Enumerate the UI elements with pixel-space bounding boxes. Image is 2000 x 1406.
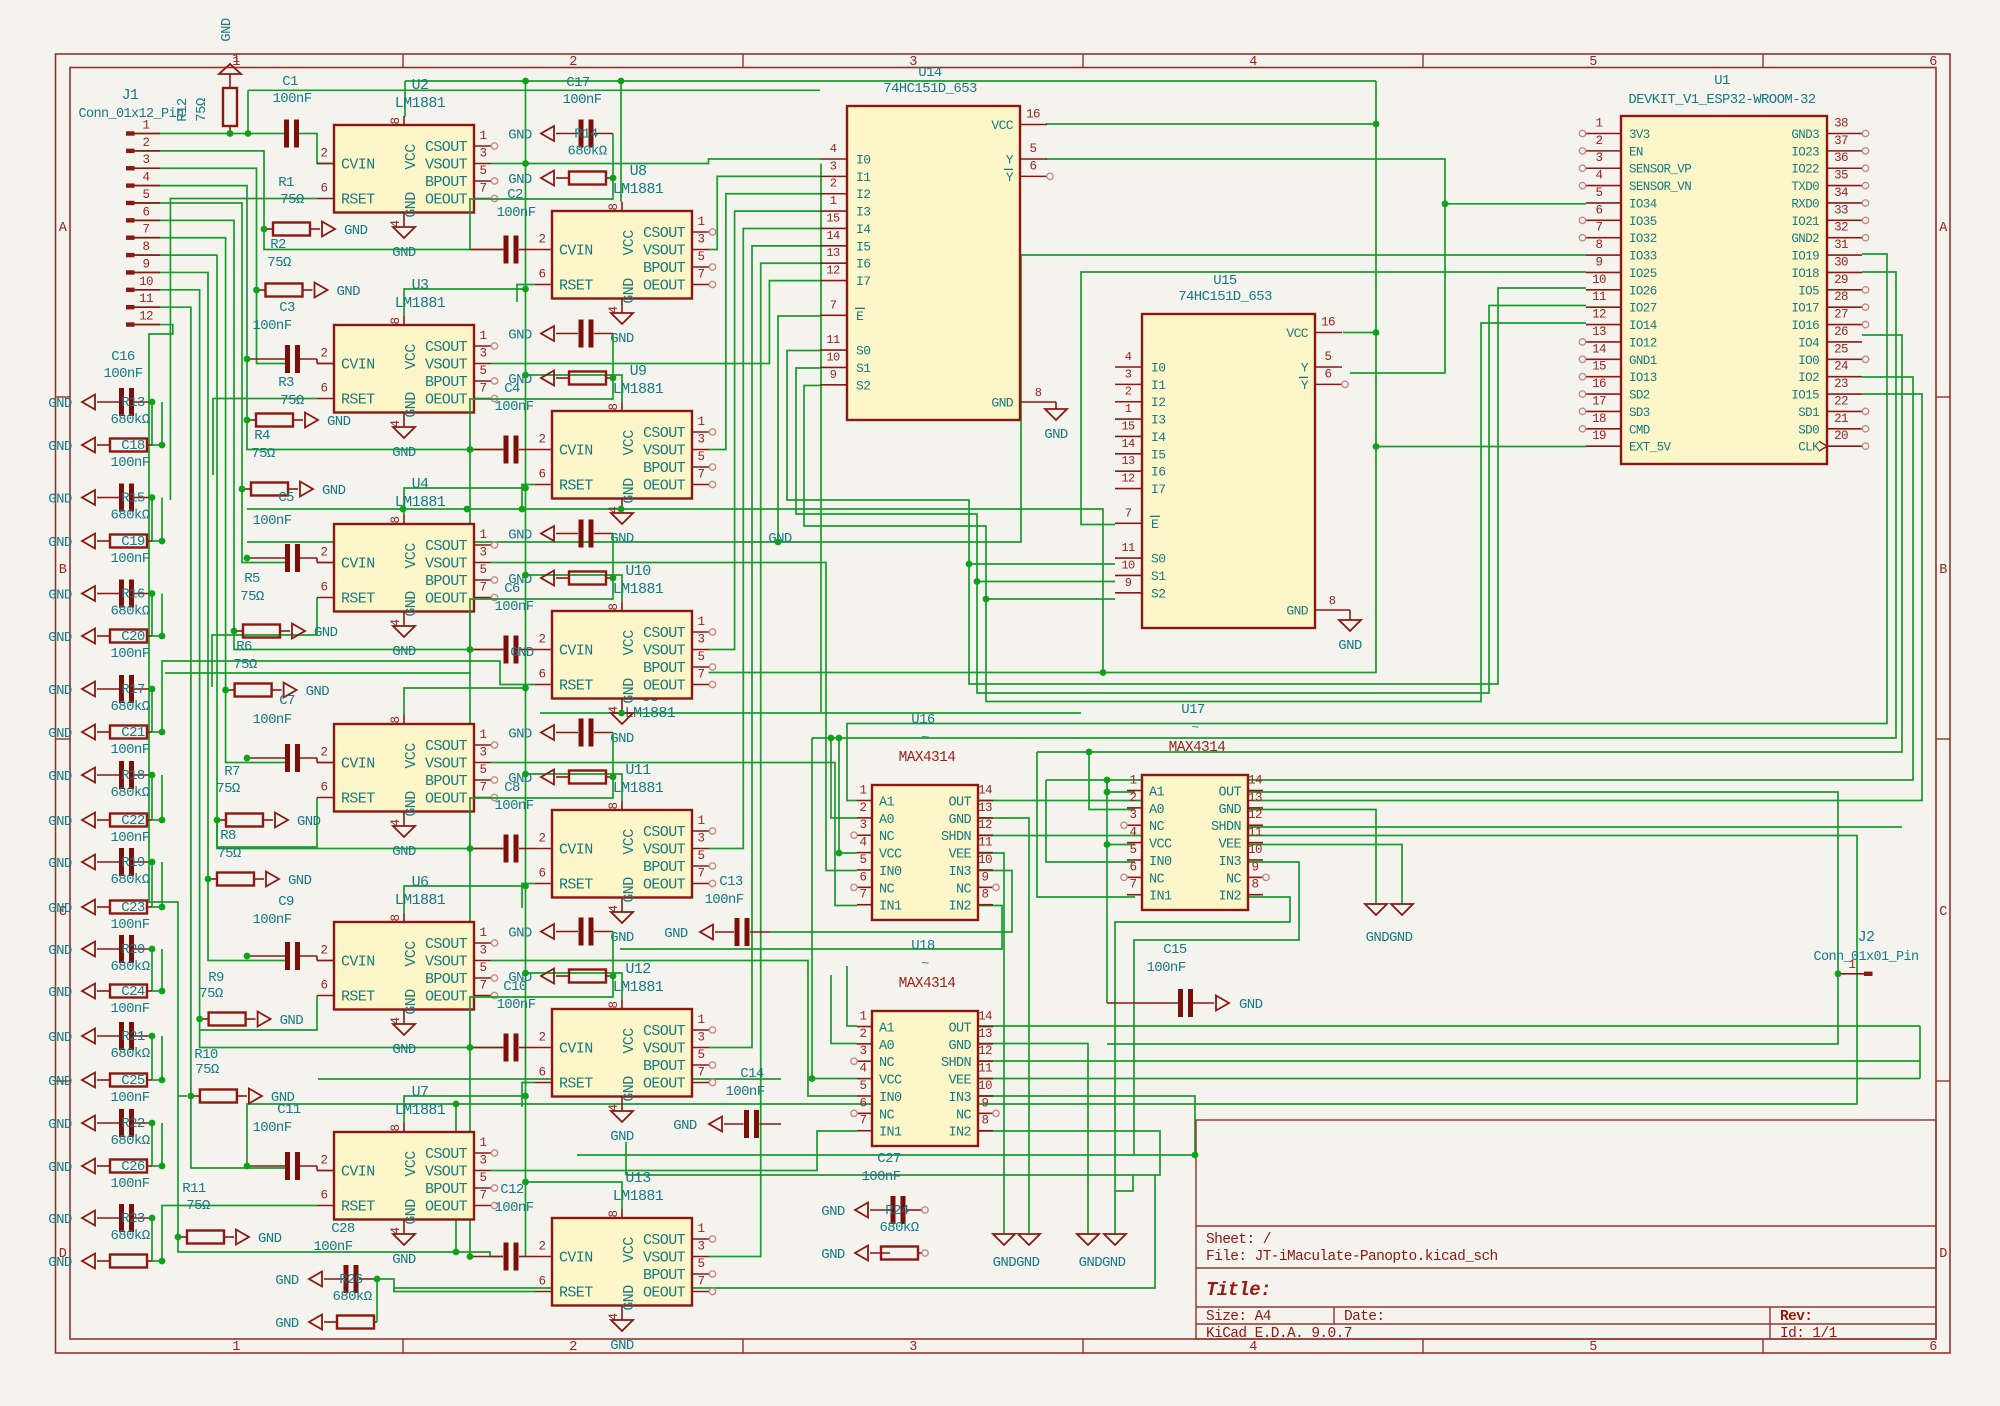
svg-text:9: 9: [982, 870, 989, 884]
svg-text:1: 1: [1596, 117, 1603, 131]
svg-text:I4: I4: [1151, 430, 1166, 445]
svg-text:MAX4314: MAX4314: [899, 976, 956, 992]
svg-text:C16: C16: [111, 349, 135, 365]
svg-text:GND: GND: [403, 192, 420, 218]
svg-text:C14: C14: [740, 1066, 764, 1082]
svg-text:IN2: IN2: [948, 1126, 971, 1141]
svg-text:100nF: 100nF: [110, 917, 149, 933]
svg-text:GND: GND: [48, 985, 72, 1001]
svg-text:8: 8: [389, 1124, 403, 1131]
svg-text:B: B: [1939, 563, 1947, 578]
svg-text:GND: GND: [510, 645, 534, 661]
svg-text:75Ω: 75Ω: [233, 657, 257, 673]
svg-text:E: E: [856, 309, 864, 324]
svg-text:GND: GND: [48, 1030, 72, 1046]
svg-text:IO12: IO12: [1629, 336, 1657, 350]
svg-text:22: 22: [1834, 394, 1848, 408]
svg-text:VCC: VCC: [403, 743, 420, 769]
svg-text:GND: GND: [48, 1255, 72, 1271]
svg-text:IO16: IO16: [1791, 319, 1819, 333]
svg-text:GND: GND: [821, 1204, 845, 1220]
svg-text:Y: Y: [1006, 153, 1014, 168]
svg-text:LM1881: LM1881: [613, 381, 664, 398]
svg-text:680kΩ: 680kΩ: [110, 1046, 149, 1062]
svg-text:1: 1: [480, 129, 487, 143]
svg-text:GND: GND: [327, 414, 351, 430]
svg-text:4: 4: [143, 171, 150, 185]
svg-text:8: 8: [607, 1001, 621, 1008]
svg-text:IN3: IN3: [948, 865, 971, 880]
svg-text:3: 3: [480, 746, 487, 760]
svg-text:12: 12: [978, 818, 992, 832]
svg-text:C: C: [1939, 905, 1947, 920]
svg-text:GND: GND: [337, 284, 361, 300]
svg-text:5: 5: [698, 650, 705, 664]
svg-text:GND: GND: [48, 1074, 72, 1090]
svg-text:BPOUT: BPOUT: [643, 859, 686, 876]
svg-text:R20: R20: [121, 942, 145, 958]
svg-text:IN2: IN2: [948, 900, 971, 915]
svg-text:R3: R3: [278, 375, 294, 391]
svg-text:CSOUT: CSOUT: [643, 625, 686, 642]
svg-text:CSOUT: CSOUT: [643, 1023, 686, 1040]
svg-text:S1: S1: [856, 361, 871, 376]
svg-text:LM1881: LM1881: [613, 181, 664, 198]
svg-text:R6: R6: [236, 639, 252, 655]
svg-text:2: 2: [539, 433, 546, 447]
svg-text:5: 5: [698, 450, 705, 464]
svg-text:3: 3: [480, 546, 487, 560]
svg-text:8: 8: [607, 802, 621, 809]
svg-text:CVIN: CVIN: [341, 954, 375, 971]
svg-text:100nF: 100nF: [110, 830, 149, 846]
svg-text:GND: GND: [1218, 803, 1241, 818]
svg-text:IO35: IO35: [1629, 215, 1657, 229]
svg-text:20: 20: [1834, 429, 1848, 443]
svg-text:8: 8: [607, 603, 621, 610]
svg-text:11: 11: [978, 1062, 992, 1076]
svg-text:OEOUT: OEOUT: [643, 1285, 686, 1302]
svg-text:GND: GND: [48, 1117, 72, 1133]
svg-text:2: 2: [321, 347, 328, 361]
svg-text:GND: GND: [219, 18, 235, 42]
svg-text:3: 3: [1125, 367, 1132, 381]
svg-text:5: 5: [1596, 186, 1603, 200]
svg-text:I5: I5: [856, 239, 870, 254]
svg-text:14: 14: [978, 1010, 992, 1024]
svg-text:B: B: [59, 563, 67, 578]
svg-text:35: 35: [1834, 169, 1848, 183]
svg-text:7: 7: [698, 1275, 705, 1289]
svg-text:CMD: CMD: [1629, 423, 1650, 437]
svg-text:IO23: IO23: [1791, 145, 1819, 159]
svg-text:3: 3: [1130, 808, 1137, 822]
svg-text:Y: Y: [1301, 361, 1309, 376]
svg-text:U9: U9: [630, 363, 647, 380]
svg-text:10: 10: [826, 350, 840, 364]
svg-text:7: 7: [698, 668, 705, 682]
svg-text:Conn_01x12_Pin: Conn_01x12_Pin: [78, 107, 183, 122]
svg-text:VSOUT: VSOUT: [425, 756, 468, 773]
svg-text:7: 7: [860, 888, 867, 902]
svg-text:5: 5: [860, 1079, 867, 1093]
svg-text:C18: C18: [121, 438, 145, 454]
svg-text:GND: GND: [621, 1285, 638, 1311]
svg-text:RSET: RSET: [341, 791, 375, 808]
svg-text:680kΩ: 680kΩ: [332, 1289, 371, 1305]
svg-text:GND: GND: [403, 392, 420, 418]
svg-text:CLK: CLK: [1798, 441, 1820, 455]
svg-text:1: 1: [143, 119, 150, 133]
svg-text:100nF: 100nF: [110, 1090, 149, 1106]
svg-text:GND: GND: [403, 791, 420, 817]
svg-text:100nF: 100nF: [1146, 960, 1185, 976]
svg-text:C2: C2: [507, 187, 523, 203]
svg-text:RSET: RSET: [559, 877, 593, 894]
svg-text:100nF: 100nF: [494, 798, 533, 814]
svg-text:3: 3: [143, 153, 150, 167]
svg-text:NC: NC: [879, 1108, 895, 1123]
svg-text:I2: I2: [1151, 395, 1165, 410]
svg-text:5: 5: [480, 961, 487, 975]
svg-text:5: 5: [143, 188, 150, 202]
svg-text:5: 5: [698, 250, 705, 264]
svg-text:GND: GND: [392, 844, 416, 860]
svg-text:RSET: RSET: [341, 591, 375, 608]
svg-text:29: 29: [1834, 273, 1848, 287]
svg-text:VSOUT: VSOUT: [643, 1041, 686, 1058]
svg-text:10: 10: [1248, 843, 1262, 857]
svg-text:IO2: IO2: [1798, 371, 1819, 385]
svg-text:1: 1: [480, 926, 487, 940]
svg-text:30: 30: [1834, 255, 1848, 269]
svg-text:7: 7: [480, 382, 487, 396]
svg-text:6: 6: [321, 1189, 328, 1203]
svg-text:GND: GND: [403, 989, 420, 1015]
svg-text:VCC: VCC: [879, 848, 902, 863]
svg-text:VCC: VCC: [621, 230, 638, 256]
svg-text:A0: A0: [879, 1039, 895, 1054]
svg-text:IO0: IO0: [1798, 354, 1819, 368]
svg-text:SD1: SD1: [1798, 406, 1819, 420]
svg-text:15: 15: [826, 211, 840, 225]
svg-text:VSOUT: VSOUT: [643, 1250, 686, 1267]
svg-text:VCC: VCC: [621, 430, 638, 456]
svg-text:GNDGND: GNDGND: [993, 1255, 1040, 1271]
svg-text:680kΩ: 680kΩ: [110, 872, 149, 888]
svg-text:75Ω: 75Ω: [217, 846, 241, 862]
svg-text:GND: GND: [48, 856, 72, 872]
svg-text:S2: S2: [1151, 586, 1165, 601]
svg-text:NC: NC: [879, 1056, 895, 1071]
svg-text:R7: R7: [224, 764, 240, 780]
svg-text:E: E: [1151, 517, 1159, 532]
svg-text:GND: GND: [322, 483, 346, 499]
svg-text:A1: A1: [879, 1022, 895, 1037]
svg-text:GND: GND: [673, 1118, 697, 1134]
svg-text:A1: A1: [879, 796, 895, 811]
svg-text:17: 17: [1592, 394, 1606, 408]
svg-text:IO34: IO34: [1629, 197, 1657, 211]
svg-text:Conn_01x01_Pin: Conn_01x01_Pin: [1813, 950, 1918, 965]
svg-text:100nF: 100nF: [494, 599, 533, 615]
svg-text:IO21: IO21: [1791, 215, 1819, 229]
svg-text:3: 3: [909, 55, 917, 70]
svg-text:VCC: VCC: [403, 1151, 420, 1177]
svg-text:IO19: IO19: [1791, 250, 1819, 264]
svg-text:8: 8: [143, 240, 150, 254]
svg-text:GND: GND: [48, 396, 72, 412]
svg-text:C21: C21: [121, 725, 145, 741]
svg-text:GND: GND: [48, 439, 72, 455]
svg-text:2: 2: [539, 633, 546, 647]
svg-text:2: 2: [1596, 134, 1603, 148]
svg-text:~: ~: [921, 730, 929, 745]
svg-text:1: 1: [698, 1222, 705, 1236]
svg-text:BPOUT: BPOUT: [643, 660, 686, 677]
svg-text:100nF: 100nF: [103, 366, 142, 382]
svg-text:C23: C23: [121, 900, 145, 916]
svg-text:CSOUT: CSOUT: [425, 538, 468, 555]
svg-text:IN3: IN3: [1218, 855, 1241, 870]
svg-text:I3: I3: [1151, 413, 1165, 428]
svg-text:680kΩ: 680kΩ: [110, 1228, 149, 1244]
svg-text:5: 5: [698, 1257, 705, 1271]
svg-text:15: 15: [1121, 419, 1135, 433]
svg-text:1: 1: [860, 784, 867, 798]
svg-text:IN1: IN1: [879, 900, 902, 915]
svg-text:C27: C27: [877, 1151, 901, 1167]
svg-text:GND2: GND2: [1791, 232, 1819, 246]
svg-text:1: 1: [232, 1340, 240, 1355]
svg-text:GND: GND: [48, 943, 72, 959]
svg-text:Sheet: /: Sheet: /: [1206, 1232, 1271, 1248]
svg-text:75Ω: 75Ω: [280, 393, 304, 409]
svg-text:7: 7: [143, 223, 150, 237]
svg-text:VSOUT: VSOUT: [643, 842, 686, 859]
svg-text:680kΩ: 680kΩ: [110, 604, 149, 620]
svg-text:GND: GND: [621, 478, 638, 504]
svg-text:OEOUT: OEOUT: [643, 1076, 686, 1093]
svg-text:RSET: RSET: [559, 1076, 593, 1093]
svg-text:14: 14: [1121, 437, 1135, 451]
svg-text:GND: GND: [275, 1316, 299, 1332]
svg-text:IN0: IN0: [879, 1091, 902, 1106]
svg-text:R15: R15: [121, 491, 145, 507]
svg-text:2: 2: [539, 832, 546, 846]
svg-text:7: 7: [1130, 878, 1137, 892]
svg-text:6: 6: [539, 468, 546, 482]
svg-text:BPOUT: BPOUT: [425, 1181, 468, 1198]
svg-text:I6: I6: [856, 257, 870, 272]
svg-text:U2: U2: [412, 77, 429, 94]
svg-text:R21: R21: [121, 1029, 145, 1045]
svg-text:9: 9: [830, 368, 837, 382]
svg-text:C7: C7: [279, 693, 295, 709]
svg-text:3: 3: [830, 159, 837, 173]
svg-text:4: 4: [830, 142, 837, 156]
svg-text:16: 16: [1026, 108, 1040, 122]
svg-text:GND: GND: [1239, 997, 1263, 1013]
svg-text:100nF: 100nF: [252, 912, 291, 928]
svg-text:NC: NC: [1149, 872, 1165, 887]
svg-text:14: 14: [1248, 774, 1262, 788]
svg-text:VCC: VCC: [403, 543, 420, 569]
svg-text:GND: GND: [1044, 427, 1068, 443]
svg-text:LM1881: LM1881: [395, 95, 446, 112]
svg-text:4: 4: [1596, 169, 1603, 183]
svg-text:U8: U8: [630, 163, 647, 180]
svg-text:NC: NC: [879, 882, 895, 897]
svg-text:6: 6: [860, 1096, 867, 1110]
svg-text:GND: GND: [621, 278, 638, 304]
svg-text:3: 3: [1596, 151, 1603, 165]
svg-text:CVIN: CVIN: [341, 157, 375, 174]
svg-text:5: 5: [1325, 350, 1332, 364]
svg-text:100nF: 100nF: [494, 1200, 533, 1216]
svg-text:14: 14: [978, 784, 992, 798]
svg-text:GND: GND: [280, 1013, 304, 1029]
svg-text:34: 34: [1834, 186, 1848, 200]
svg-text:24: 24: [1834, 360, 1848, 374]
svg-text:13: 13: [826, 246, 840, 260]
svg-text:680kΩ: 680kΩ: [110, 1133, 149, 1149]
svg-text:5: 5: [480, 364, 487, 378]
svg-text:2: 2: [860, 1027, 867, 1041]
svg-text:C24: C24: [121, 984, 145, 1000]
svg-text:RSET: RSET: [341, 1199, 375, 1216]
svg-text:VSOUT: VSOUT: [643, 643, 686, 660]
svg-text:~: ~: [1191, 720, 1199, 735]
svg-text:U14: U14: [918, 65, 942, 81]
svg-text:6: 6: [321, 182, 328, 196]
svg-text:2: 2: [321, 147, 328, 161]
svg-text:75Ω: 75Ω: [251, 446, 275, 462]
svg-text:36: 36: [1834, 151, 1848, 165]
svg-text:GND: GND: [48, 814, 72, 830]
svg-text:R14: R14: [574, 127, 598, 143]
svg-text:NC: NC: [879, 830, 895, 845]
svg-text:11: 11: [826, 333, 840, 347]
svg-text:5: 5: [1589, 55, 1597, 70]
svg-text:3: 3: [698, 633, 705, 647]
svg-text:6: 6: [1596, 203, 1603, 217]
svg-text:1: 1: [233, 52, 240, 66]
svg-text:74HC151D_653: 74HC151D_653: [883, 81, 977, 97]
svg-text:C1: C1: [282, 74, 298, 90]
svg-text:R1: R1: [278, 175, 294, 191]
svg-text:8: 8: [607, 1210, 621, 1217]
svg-text:11: 11: [978, 836, 992, 850]
svg-text:Size: A4: Size: A4: [1206, 1309, 1271, 1325]
svg-text:VCC: VCC: [879, 1074, 902, 1089]
svg-text:CVIN: CVIN: [559, 243, 593, 260]
svg-text:3: 3: [480, 147, 487, 161]
svg-text:100nF: 100nF: [110, 551, 149, 567]
svg-text:Y: Y: [1006, 170, 1014, 185]
svg-text:CSOUT: CSOUT: [425, 139, 468, 156]
svg-text:LM1881: LM1881: [395, 295, 446, 312]
svg-text:7: 7: [480, 781, 487, 795]
svg-text:GND: GND: [1338, 638, 1362, 654]
svg-text:CSOUT: CSOUT: [425, 1146, 468, 1163]
svg-text:8: 8: [1329, 594, 1336, 608]
svg-text:IO33: IO33: [1629, 250, 1657, 264]
svg-text:7: 7: [698, 1066, 705, 1080]
svg-text:680kΩ: 680kΩ: [110, 959, 149, 975]
svg-text:VSOUT: VSOUT: [425, 157, 468, 174]
svg-text:R12: R12: [175, 98, 191, 122]
svg-text:4: 4: [1249, 55, 1257, 70]
svg-text:U12: U12: [625, 961, 650, 978]
svg-text:IO17: IO17: [1791, 302, 1819, 316]
svg-text:75Ω: 75Ω: [267, 255, 291, 271]
svg-text:D: D: [1939, 1247, 1947, 1262]
svg-text:100nF: 100nF: [494, 399, 533, 415]
svg-text:3: 3: [909, 1340, 917, 1355]
svg-text:2: 2: [569, 1340, 577, 1355]
svg-text:GND: GND: [403, 591, 420, 617]
svg-text:IO13: IO13: [1629, 371, 1657, 385]
svg-text:GND: GND: [344, 223, 368, 239]
svg-text:SD2: SD2: [1629, 389, 1650, 403]
svg-text:3: 3: [698, 433, 705, 447]
svg-text:9: 9: [1596, 255, 1603, 269]
svg-text:GND: GND: [48, 588, 72, 604]
svg-text:3V3: 3V3: [1629, 128, 1650, 142]
svg-text:GND: GND: [48, 683, 72, 699]
svg-text:GND: GND: [621, 877, 638, 903]
svg-text:VCC: VCC: [621, 829, 638, 855]
svg-text:BPOUT: BPOUT: [425, 971, 468, 988]
svg-text:I6: I6: [1151, 465, 1165, 480]
svg-text:GNDGND: GNDGND: [1079, 1255, 1126, 1271]
svg-text:LM1881: LM1881: [395, 892, 446, 909]
svg-text:C20: C20: [121, 629, 145, 645]
svg-text:SD0: SD0: [1798, 423, 1819, 437]
svg-text:Y: Y: [1301, 378, 1309, 393]
svg-text:U4: U4: [412, 476, 429, 493]
svg-text:GND: GND: [48, 901, 72, 917]
svg-text:2: 2: [569, 55, 577, 70]
svg-text:GND1: GND1: [1629, 354, 1657, 368]
svg-text:BPOUT: BPOUT: [643, 1058, 686, 1075]
svg-text:12: 12: [826, 264, 840, 278]
svg-text:6: 6: [539, 668, 546, 682]
svg-text:CSOUT: CSOUT: [643, 824, 686, 841]
svg-text:VEE: VEE: [948, 848, 971, 863]
svg-text:3: 3: [698, 1240, 705, 1254]
svg-text:1: 1: [1849, 958, 1856, 972]
svg-text:8: 8: [982, 888, 989, 902]
svg-text:680kΩ: 680kΩ: [879, 1220, 918, 1236]
svg-text:RSET: RSET: [341, 192, 375, 209]
svg-text:GND: GND: [48, 492, 72, 508]
svg-text:CVIN: CVIN: [559, 1041, 593, 1058]
svg-text:75Ω: 75Ω: [216, 781, 240, 797]
svg-text:CSOUT: CSOUT: [425, 738, 468, 755]
svg-text:C9: C9: [278, 894, 294, 910]
svg-text:GND: GND: [48, 630, 72, 646]
svg-text:BPOUT: BPOUT: [425, 174, 468, 191]
svg-text:CSOUT: CSOUT: [643, 425, 686, 442]
svg-text:GND: GND: [258, 1231, 282, 1247]
svg-text:3: 3: [480, 944, 487, 958]
svg-text:13: 13: [1121, 454, 1135, 468]
svg-text:S2: S2: [856, 378, 870, 393]
svg-text:9: 9: [143, 257, 150, 271]
svg-text:2: 2: [321, 1154, 328, 1168]
